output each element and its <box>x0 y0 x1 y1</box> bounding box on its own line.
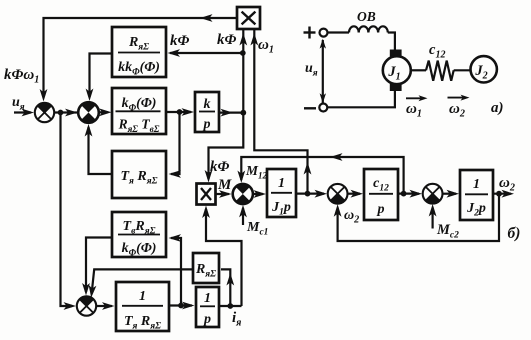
block W8 RяΣ <box>193 253 219 283</box>
wire S4 to block W9 <box>253 190 266 198</box>
brush bottom <box>390 83 402 91</box>
wire S6 to block W11 <box>443 190 460 198</box>
plus sign <box>304 27 316 39</box>
wire node to S3 (u_я branch) <box>61 113 77 310</box>
block W3 k/p <box>195 92 219 132</box>
summing junction S6 <box>423 184 443 204</box>
wire W5 output to S3 <box>82 238 112 296</box>
svg-text:а): а) <box>491 100 504 116</box>
svg-text:kΦ​(Φ): kΦ​(Φ) <box>122 241 157 259</box>
input u_я wire <box>14 109 34 117</box>
block W2 kΦ(Φ)/RяΣTвΣ <box>112 88 166 134</box>
svg-text:1: 1 <box>204 291 211 306</box>
inductor OB (field winding) <box>328 26 388 32</box>
wire S2 to block W2 <box>99 108 112 116</box>
summing junction S4 <box>232 184 253 205</box>
label а) <box>491 100 504 116</box>
svg-text:p: p <box>203 117 211 132</box>
terminal - circle <box>319 104 327 112</box>
wire kΦ to W1 input <box>168 49 246 57</box>
block W9 1/J1p <box>267 169 296 218</box>
label u_я <box>12 95 25 113</box>
svg-text:kΦ: kΦ <box>217 32 237 48</box>
wire node to W5 input <box>169 234 182 305</box>
wire U2 to S4 <box>216 190 232 198</box>
block W6 1/TяRяΣ <box>116 282 169 332</box>
svg-text:kΦ: kΦ <box>210 159 230 175</box>
wire U1 output to node S1 (EMF feedback) <box>40 14 237 101</box>
wire kΦ riser to U1 <box>239 29 247 113</box>
wire W9 to S5 <box>296 190 327 198</box>
label u_я (schematic) <box>305 61 318 79</box>
wire W10 to S6 <box>398 190 422 198</box>
label Mc1 <box>246 220 268 238</box>
wire J1 to terminal - <box>328 91 395 107</box>
input Mc1 <box>239 205 247 225</box>
label ω2 feedback <box>344 208 359 226</box>
vector ω1 <box>406 95 428 119</box>
summing junction S2 <box>78 102 99 123</box>
svg-text:1: 1 <box>139 289 146 304</box>
wire coil to J1 <box>388 33 395 51</box>
block W1 RяΣ/kkΦ(Φ) <box>112 27 166 78</box>
label ОВ <box>357 9 376 24</box>
wire S1 to S2 <box>54 109 77 117</box>
input Mc2 <box>429 204 437 229</box>
wire W1 output to S2 <box>86 54 112 102</box>
multiplier U1 (kΦ·ω1) <box>237 7 260 29</box>
block W5 TвRяΣ/kΦ(Φ) <box>112 212 166 259</box>
wire W8 output to S3 <box>89 269 193 297</box>
svg-text:kkΦ​(Φ): kkΦ​(Φ) <box>118 60 160 78</box>
label ω2 output <box>499 175 515 194</box>
label kΦ (left) <box>170 33 190 49</box>
block W11 1/J2p <box>460 170 493 220</box>
wire S3 to block W6 <box>96 302 114 310</box>
svg-text:1: 1 <box>278 176 285 191</box>
svg-text:ОВ: ОВ <box>357 9 376 24</box>
brush top <box>390 50 402 58</box>
wire node to block W4 input <box>169 112 182 178</box>
svg-text:M: M <box>217 177 232 193</box>
vector ω2 <box>448 95 470 120</box>
wire ω2 feedback to S5 <box>334 194 499 241</box>
mass J2 <box>471 56 497 82</box>
label б) <box>508 225 521 242</box>
wire W3 output to kΦ node <box>219 109 246 117</box>
terminal + circle <box>320 29 328 37</box>
block W10 c12/p <box>364 169 398 220</box>
svg-text:p: p <box>203 312 211 327</box>
label M <box>217 177 232 193</box>
summing junction S3 <box>77 296 96 315</box>
label kΦ (U2) <box>210 159 230 175</box>
label M12 <box>245 163 268 181</box>
svg-text:p: p <box>377 202 385 217</box>
wire iя to block W8 <box>221 269 234 306</box>
block W4 TяRяΣ <box>112 151 166 198</box>
label kΦ (right) <box>217 32 237 48</box>
label c12 <box>429 42 445 61</box>
summing junction S1 <box>35 103 54 122</box>
wire S5 to block W10 <box>348 190 364 198</box>
block W7 1/p <box>196 287 219 327</box>
spring c12 <box>411 61 471 81</box>
label Mc2 <box>436 222 459 241</box>
svg-text:k: k <box>204 97 211 112</box>
svg-text:kΦ: kΦ <box>170 33 190 49</box>
wire iя to U2 input <box>202 206 241 307</box>
wire ω1 riser to U1 <box>250 29 311 194</box>
minus sign <box>304 107 316 109</box>
svg-text:kΦω1: kΦω1 <box>4 67 39 86</box>
wire M12 feedback <box>237 153 406 196</box>
label ω1 <box>258 37 274 56</box>
label kΦω1 <box>4 67 39 86</box>
u_я dimension line <box>320 39 326 104</box>
wire W4 output to S2 <box>85 124 112 174</box>
wire W7 output (iя) <box>219 303 242 309</box>
multiplier U2 (kΦ·iя) <box>197 184 216 205</box>
wire W6 to block W7 <box>169 302 195 310</box>
svg-text:1: 1 <box>473 177 480 192</box>
label iя <box>232 310 241 329</box>
svg-text:б): б) <box>508 225 521 242</box>
summing junction S5 <box>328 184 348 204</box>
wire kΦ to U2 <box>205 113 244 183</box>
wire ω2 output <box>493 190 514 198</box>
wire W2 to block W3 <box>166 108 194 116</box>
motor J1 <box>383 56 411 84</box>
